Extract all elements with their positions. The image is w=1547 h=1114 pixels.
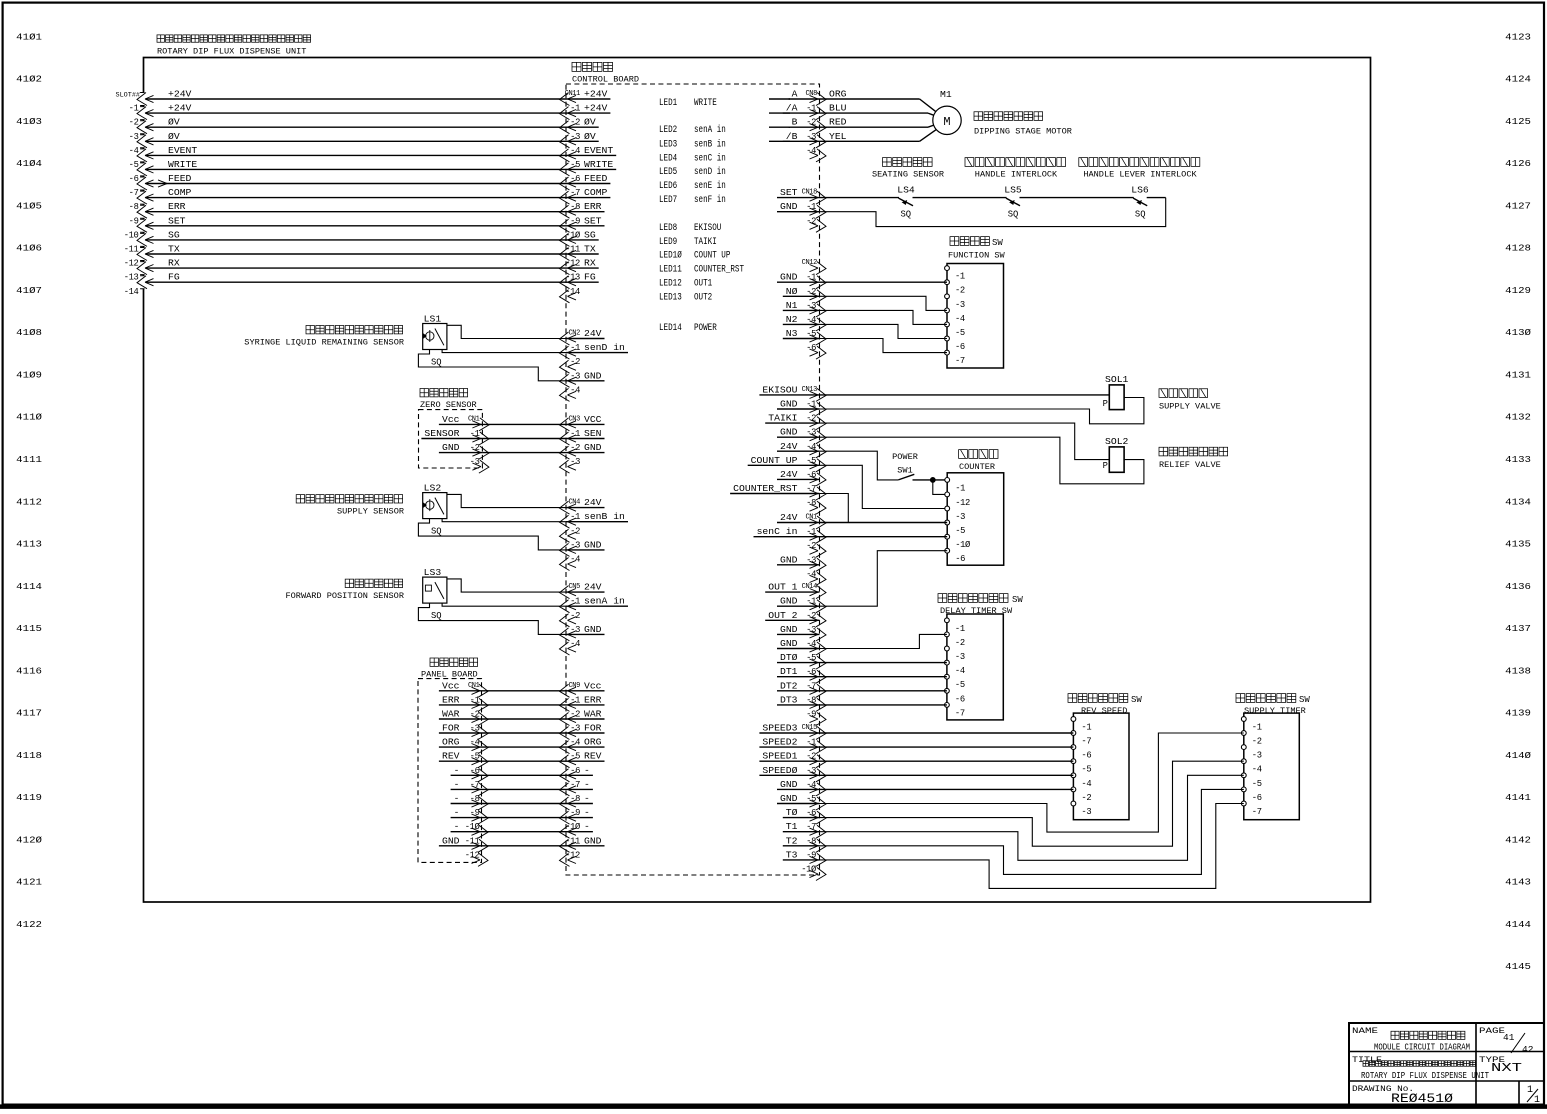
svg-text:ERR: ERR xyxy=(168,201,186,212)
svg-text:-4: -4 xyxy=(570,738,580,748)
svg-text:-5: -5 xyxy=(955,328,965,338)
svg-text:-2: -2 xyxy=(1081,793,1091,803)
svg-text:-1: -1 xyxy=(955,483,965,493)
svg-text:SW: SW xyxy=(1012,595,1023,605)
svg-text:-1: -1 xyxy=(570,429,580,439)
svg-text:-11: -11 xyxy=(124,245,139,255)
svg-text:OUT1: OUT1 xyxy=(694,278,712,289)
svg-text:1: 1 xyxy=(1534,1095,1540,1106)
svg-text:-7: -7 xyxy=(1081,737,1091,747)
svg-text:24V: 24V xyxy=(780,512,798,523)
svg-text:EVENT: EVENT xyxy=(584,145,613,156)
svg-text:-6: -6 xyxy=(955,694,965,704)
svg-text:CN14: CN14 xyxy=(802,583,818,591)
svg-text:ERR: ERR xyxy=(442,694,460,705)
svg-text:SQ: SQ xyxy=(431,526,442,537)
svg-text:413Ø: 413Ø xyxy=(1505,327,1531,338)
svg-text:ØV: ØV xyxy=(168,117,180,128)
svg-text:SUPPLY SENSOR: SUPPLY SENSOR xyxy=(337,507,404,517)
svg-text:414Ø: 414Ø xyxy=(1505,750,1531,761)
svg-text:CN1: CN1 xyxy=(805,514,817,522)
svg-text:DELAY TIMER SW: DELAY TIMER SW xyxy=(940,606,1013,616)
svg-text:Vcc: Vcc xyxy=(584,680,602,691)
svg-text:-3: -3 xyxy=(570,132,580,142)
svg-text:LED11: LED11 xyxy=(659,265,682,276)
svg-text:SET: SET xyxy=(168,215,186,226)
svg-text:CN12: CN12 xyxy=(802,259,818,267)
svg-text:senC in: senC in xyxy=(694,152,726,164)
svg-text:4144: 4144 xyxy=(1505,919,1531,930)
svg-text:GND: GND xyxy=(780,272,798,283)
svg-text:4116: 4116 xyxy=(16,665,42,676)
svg-text:SPEEDØ: SPEEDØ xyxy=(762,765,797,776)
svg-text:SQ: SQ xyxy=(901,209,912,220)
svg-text:SUPPLY VALVE: SUPPLY VALVE xyxy=(1159,402,1221,412)
svg-text:WRITE: WRITE xyxy=(584,159,613,170)
svg-text:1: 1 xyxy=(1527,1085,1533,1096)
svg-text:-: - xyxy=(584,765,590,776)
svg-text:LED14: LED14 xyxy=(659,323,682,334)
svg-text:GND: GND xyxy=(780,554,798,565)
svg-text:-5: -5 xyxy=(1252,779,1262,789)
svg-text:-1Ø: -1Ø xyxy=(565,230,581,240)
svg-text:-11: -11 xyxy=(565,245,580,255)
svg-text:-7: -7 xyxy=(955,356,965,366)
svg-text:COUNT UP: COUNT UP xyxy=(751,455,798,466)
svg-text:SUPPLY TIMER: SUPPLY TIMER xyxy=(1244,706,1306,716)
svg-text:-11: -11 xyxy=(565,836,580,846)
svg-text:DTØ: DTØ xyxy=(780,652,798,663)
svg-text:-: - xyxy=(584,779,590,790)
svg-text:42: 42 xyxy=(1522,1044,1534,1055)
svg-text:-3: -3 xyxy=(1081,807,1091,817)
svg-text:M: M xyxy=(943,115,950,129)
svg-text:GND: GND xyxy=(780,427,798,438)
svg-text:LED9: LED9 xyxy=(659,237,677,248)
svg-text:24V: 24V xyxy=(584,582,602,593)
svg-text:VCC: VCC xyxy=(584,414,602,425)
svg-text:-1: -1 xyxy=(570,343,580,353)
svg-text:SEN: SEN xyxy=(584,428,602,439)
svg-text:CN1: CN1 xyxy=(468,415,480,423)
svg-text:4121: 4121 xyxy=(16,877,42,888)
svg-text:-8: -8 xyxy=(570,202,580,212)
svg-text:FOR: FOR xyxy=(584,723,602,734)
svg-text:TX: TX xyxy=(584,244,596,255)
svg-text:FG: FG xyxy=(584,272,596,283)
svg-text:LS5: LS5 xyxy=(1004,185,1022,196)
svg-text:LED1: LED1 xyxy=(659,98,677,109)
svg-text:4128: 4128 xyxy=(1505,243,1531,254)
svg-text:-7: -7 xyxy=(1252,807,1262,817)
svg-text:SOL1: SOL1 xyxy=(1105,374,1129,385)
svg-text:-5: -5 xyxy=(955,680,965,690)
svg-text:ORG: ORG xyxy=(584,737,602,748)
svg-text:MODULE CIRCUIT DIAGRAM: MODULE CIRCUIT DIAGRAM xyxy=(1374,1043,1470,1053)
svg-text:4145: 4145 xyxy=(1505,961,1531,972)
svg-text:4111: 4111 xyxy=(16,454,42,465)
svg-text:-: - xyxy=(454,779,460,790)
svg-text:-2: -2 xyxy=(129,118,139,128)
svg-text:DT2: DT2 xyxy=(780,680,798,691)
svg-text:-1: -1 xyxy=(129,104,139,114)
svg-text:4115: 4115 xyxy=(16,623,42,634)
svg-text:-3: -3 xyxy=(955,512,965,522)
svg-text:ØV: ØV xyxy=(584,131,596,142)
svg-text:FEED: FEED xyxy=(584,173,608,184)
svg-text:CN15: CN15 xyxy=(802,724,818,732)
svg-text:SW1: SW1 xyxy=(897,466,913,476)
svg-text:P: P xyxy=(1103,461,1108,471)
svg-text:-13: -13 xyxy=(124,273,139,283)
svg-text:-2: -2 xyxy=(570,611,580,621)
svg-text:-5: -5 xyxy=(570,160,580,170)
svg-text:-4: -4 xyxy=(570,146,580,156)
svg-text:REV SPEED: REV SPEED xyxy=(1081,706,1127,716)
svg-text:-: - xyxy=(454,807,460,818)
svg-text:-6: -6 xyxy=(1081,751,1091,761)
svg-text:GND: GND xyxy=(780,779,798,790)
svg-text:SW: SW xyxy=(1131,695,1142,705)
svg-text:GND: GND xyxy=(442,835,460,846)
svg-text:NAME: NAME xyxy=(1352,1026,1378,1036)
svg-text:GND: GND xyxy=(584,835,602,846)
svg-text:-: - xyxy=(454,821,460,832)
svg-text:4142: 4142 xyxy=(1505,834,1531,845)
svg-text:WRITE: WRITE xyxy=(694,98,717,109)
svg-text:-2: -2 xyxy=(570,710,580,720)
svg-text:/A: /A xyxy=(786,103,798,114)
svg-text:TAIKI: TAIKI xyxy=(694,237,717,248)
svg-text:-9: -9 xyxy=(570,808,580,818)
svg-text:-2: -2 xyxy=(955,638,965,648)
svg-text:GND: GND xyxy=(442,442,460,453)
svg-text:4143: 4143 xyxy=(1505,877,1531,888)
svg-text:4137: 4137 xyxy=(1505,623,1531,634)
svg-text:N2: N2 xyxy=(786,314,798,325)
svg-text:-1: -1 xyxy=(955,272,965,282)
svg-text:FOR: FOR xyxy=(442,723,460,734)
svg-text:SEATING SENSOR: SEATING SENSOR xyxy=(872,170,944,180)
svg-text:24V: 24V xyxy=(584,497,602,508)
svg-text:-7: -7 xyxy=(129,188,139,198)
svg-text:senD in: senD in xyxy=(694,166,726,178)
svg-text:GND: GND xyxy=(584,624,602,635)
svg-text:41Ø5: 41Ø5 xyxy=(16,200,42,211)
svg-text:LED2: LED2 xyxy=(659,125,677,136)
svg-text:REV: REV xyxy=(584,751,602,762)
svg-text:-9: -9 xyxy=(570,216,580,226)
svg-text:SQ: SQ xyxy=(1008,209,1019,220)
svg-text:LED13: LED13 xyxy=(659,292,682,303)
svg-text:ZERO SENSOR: ZERO SENSOR xyxy=(420,400,477,410)
svg-text:B: B xyxy=(792,117,798,128)
svg-text:-3: -3 xyxy=(570,625,580,635)
svg-text:FORWARD POSITION SENSOR: FORWARD POSITION SENSOR xyxy=(286,591,405,601)
svg-text:LS1: LS1 xyxy=(424,314,442,325)
svg-text:4122: 4122 xyxy=(16,919,42,930)
svg-text:LED7: LED7 xyxy=(659,195,677,206)
svg-text:LED5: LED5 xyxy=(659,167,677,178)
svg-text:CONTROL BOARD: CONTROL BOARD xyxy=(572,75,639,85)
svg-text:4126: 4126 xyxy=(1505,158,1531,169)
svg-text:HANDLE INTERLOCK: HANDLE INTERLOCK xyxy=(975,170,1058,180)
svg-text:-8: -8 xyxy=(570,794,580,804)
svg-text:-4: -4 xyxy=(806,442,816,452)
svg-text:COUNT UP: COUNT UP xyxy=(694,251,730,262)
svg-text:-5: -5 xyxy=(570,752,580,762)
svg-text:DIPPING STAGE MOTOR: DIPPING STAGE MOTOR xyxy=(974,127,1072,137)
svg-text:-1Ø: -1Ø xyxy=(955,540,971,550)
svg-text:-2: -2 xyxy=(955,286,965,296)
svg-text:4117: 4117 xyxy=(16,708,42,719)
svg-text:CN8: CN8 xyxy=(805,90,817,98)
svg-text:GND: GND xyxy=(584,442,602,453)
svg-text:senA in: senA in xyxy=(584,596,625,607)
svg-text:CN5: CN5 xyxy=(568,583,580,591)
svg-text:4138: 4138 xyxy=(1505,665,1531,676)
svg-text:CN9: CN9 xyxy=(568,682,580,690)
svg-text:-6: -6 xyxy=(570,174,580,184)
svg-text:ROTARY DIP FLUX DISPENSE UNIT: ROTARY DIP FLUX DISPENSE UNIT xyxy=(1361,1071,1489,1081)
svg-text:4119: 4119 xyxy=(16,792,42,803)
svg-text:LED1Ø: LED1Ø xyxy=(659,250,682,262)
svg-text:-2: -2 xyxy=(570,357,580,367)
svg-text:SPEED2: SPEED2 xyxy=(762,737,797,748)
svg-text:+24V: +24V xyxy=(168,103,192,114)
svg-text:FEED: FEED xyxy=(168,173,192,184)
svg-text:M1: M1 xyxy=(940,89,952,100)
svg-text:4118: 4118 xyxy=(16,750,42,761)
svg-text:RX: RX xyxy=(168,258,180,269)
svg-text:SW: SW xyxy=(992,238,1003,248)
svg-text:PANEL BOARD: PANEL BOARD xyxy=(421,670,478,680)
svg-text:YEL: YEL xyxy=(829,131,847,142)
svg-text:-: - xyxy=(454,765,460,776)
svg-text:-12: -12 xyxy=(955,498,970,508)
svg-text:-6: -6 xyxy=(955,342,965,352)
svg-text:LED3: LED3 xyxy=(659,139,677,150)
svg-text:4136: 4136 xyxy=(1505,581,1531,592)
svg-text:GND: GND xyxy=(584,370,602,381)
svg-text:GND: GND xyxy=(780,399,798,410)
svg-text:-: - xyxy=(584,807,590,818)
svg-text:-7: -7 xyxy=(570,188,580,198)
svg-text:-14: -14 xyxy=(565,287,580,297)
svg-text:CN3: CN3 xyxy=(568,415,580,423)
svg-text:SLOT##: SLOT## xyxy=(116,92,140,100)
svg-text:-2: -2 xyxy=(570,118,580,128)
svg-text:Vcc: Vcc xyxy=(442,414,460,425)
svg-text:LED6: LED6 xyxy=(659,181,677,192)
svg-text:-3: -3 xyxy=(129,132,139,142)
svg-text:-12: -12 xyxy=(124,259,139,269)
svg-text:41Ø7: 41Ø7 xyxy=(16,285,42,296)
svg-text:EKISOU: EKISOU xyxy=(762,384,797,395)
svg-text:24V: 24V xyxy=(780,441,798,452)
svg-text:41: 41 xyxy=(1503,1032,1515,1043)
svg-text:-4: -4 xyxy=(955,666,965,676)
svg-text:-8: -8 xyxy=(129,202,139,212)
svg-text:-1: -1 xyxy=(1081,723,1091,733)
svg-text:T3: T3 xyxy=(786,849,798,860)
svg-text:24V: 24V xyxy=(780,469,798,480)
svg-text:TX: TX xyxy=(168,244,180,255)
svg-text:N1: N1 xyxy=(786,300,798,311)
svg-text:SPEED1: SPEED1 xyxy=(762,751,797,762)
svg-text:SET: SET xyxy=(584,215,602,226)
svg-text:ROTARY DIP FLUX DISPENSE UNIT: ROTARY DIP FLUX DISPENSE UNIT xyxy=(157,47,306,57)
svg-text:/B: /B xyxy=(786,131,798,142)
svg-text:DT3: DT3 xyxy=(780,694,798,705)
svg-text:SQ: SQ xyxy=(431,610,442,621)
svg-text:-4: -4 xyxy=(570,385,580,395)
svg-text:TØ: TØ xyxy=(786,807,798,818)
svg-text:NXT: NXT xyxy=(1491,1062,1522,1075)
svg-text:4133: 4133 xyxy=(1505,454,1531,465)
svg-text:LS3: LS3 xyxy=(424,567,442,578)
svg-text:-: - xyxy=(454,793,460,804)
svg-text:-9: -9 xyxy=(129,216,139,226)
svg-text:senD in: senD in xyxy=(584,342,625,353)
svg-text:WAR: WAR xyxy=(584,709,602,720)
svg-text:-6: -6 xyxy=(955,554,965,564)
svg-text:4123: 4123 xyxy=(1505,31,1531,42)
svg-text:DT1: DT1 xyxy=(780,666,798,677)
svg-text:SPEED3: SPEED3 xyxy=(762,723,797,734)
svg-text:A: A xyxy=(792,89,798,100)
svg-text:-4: -4 xyxy=(955,314,965,324)
svg-text:CN2: CN2 xyxy=(568,330,580,338)
svg-text:BLU: BLU xyxy=(829,103,847,114)
svg-text:4134: 4134 xyxy=(1505,496,1531,507)
svg-text:-1: -1 xyxy=(570,597,580,607)
svg-text:41Ø8: 41Ø8 xyxy=(16,327,42,338)
svg-text:RED: RED xyxy=(829,117,847,128)
svg-text:LED12: LED12 xyxy=(659,278,682,289)
svg-text:WAR: WAR xyxy=(442,709,460,720)
svg-text:PAGE: PAGE xyxy=(1479,1026,1505,1036)
svg-text:4124: 4124 xyxy=(1505,74,1531,85)
svg-text:-7: -7 xyxy=(570,780,580,790)
svg-text:T2: T2 xyxy=(786,835,798,846)
svg-text:-3: -3 xyxy=(955,652,965,662)
svg-text:CN18: CN18 xyxy=(802,189,818,197)
svg-text:COUNTER: COUNTER xyxy=(959,462,995,472)
svg-text:4131: 4131 xyxy=(1505,370,1531,381)
svg-text:FUNCTION SW: FUNCTION SW xyxy=(948,251,1006,261)
svg-text:GND: GND xyxy=(780,201,798,212)
svg-text:41Ø3: 41Ø3 xyxy=(16,116,42,127)
svg-text:-1: -1 xyxy=(570,512,580,522)
svg-text:4141: 4141 xyxy=(1505,792,1531,803)
svg-text:senA in: senA in xyxy=(694,124,726,136)
svg-text:GND: GND xyxy=(780,596,798,607)
svg-text:4125: 4125 xyxy=(1505,116,1531,127)
svg-text:ERR: ERR xyxy=(584,201,602,212)
svg-text:-12: -12 xyxy=(565,850,580,860)
svg-text:4114: 4114 xyxy=(16,581,42,592)
svg-text:-6: -6 xyxy=(129,174,139,184)
svg-text:-14: -14 xyxy=(124,287,139,297)
svg-text:411Ø: 411Ø xyxy=(16,412,42,423)
svg-text:-3: -3 xyxy=(955,300,965,310)
svg-text:RX: RX xyxy=(584,258,596,269)
svg-text:ØV: ØV xyxy=(584,117,596,128)
svg-text:-: - xyxy=(584,821,590,832)
svg-text:4113: 4113 xyxy=(16,539,42,550)
svg-text:OUT 1: OUT 1 xyxy=(768,582,797,593)
svg-text:412Ø: 412Ø xyxy=(16,834,42,845)
svg-text:ERR: ERR xyxy=(584,694,602,705)
svg-text:-4: -4 xyxy=(129,146,139,156)
svg-text:REØ451Ø: REØ451Ø xyxy=(1391,1092,1454,1106)
svg-text:SENSOR: SENSOR xyxy=(424,428,459,439)
svg-text:senC in: senC in xyxy=(757,526,798,537)
svg-text:senF in: senF in xyxy=(694,194,726,206)
svg-text:ORG: ORG xyxy=(829,89,847,100)
svg-text:-5: -5 xyxy=(955,526,965,536)
svg-text:GND: GND xyxy=(780,638,798,649)
svg-text:FG: FG xyxy=(168,272,180,283)
svg-text:LS2: LS2 xyxy=(424,483,442,494)
svg-text:SQ: SQ xyxy=(431,357,442,368)
svg-text:ORG: ORG xyxy=(442,737,460,748)
svg-text:-3: -3 xyxy=(570,724,580,734)
svg-text:41Ø4: 41Ø4 xyxy=(16,158,42,169)
svg-text:senE in: senE in xyxy=(694,180,726,192)
svg-text:4132: 4132 xyxy=(1505,412,1531,423)
svg-text:ØV: ØV xyxy=(168,131,180,142)
svg-text:N3: N3 xyxy=(786,328,798,339)
svg-text:-1Ø: -1Ø xyxy=(565,822,581,832)
svg-text:SG: SG xyxy=(168,229,180,240)
svg-text:-10: -10 xyxy=(124,230,139,240)
svg-text:LED8: LED8 xyxy=(659,223,677,234)
svg-text:24V: 24V xyxy=(584,328,602,339)
svg-text:-4: -4 xyxy=(570,555,580,565)
svg-text:41Ø2: 41Ø2 xyxy=(16,74,42,85)
svg-text:NØ: NØ xyxy=(786,286,798,297)
svg-text:HANDLE LEVER INTERLOCK: HANDLE LEVER INTERLOCK xyxy=(1083,170,1197,180)
svg-text:-3: -3 xyxy=(570,457,580,467)
svg-text:EVENT: EVENT xyxy=(168,145,197,156)
svg-text:-13: -13 xyxy=(565,273,580,283)
svg-text:-3: -3 xyxy=(570,371,580,381)
svg-text:-2: -2 xyxy=(570,443,580,453)
svg-text:+24V: +24V xyxy=(584,103,608,114)
svg-text:COUNTER_RST: COUNTER_RST xyxy=(733,483,798,494)
svg-text:-4: -4 xyxy=(1252,765,1262,775)
svg-text:SQ: SQ xyxy=(1135,209,1146,220)
svg-text:RELIEF VALVE: RELIEF VALVE xyxy=(1159,460,1221,470)
svg-text:-5: -5 xyxy=(1081,765,1091,775)
svg-text:LS6: LS6 xyxy=(1131,185,1149,196)
svg-text:-7: -7 xyxy=(955,708,965,718)
svg-text:TAIKI: TAIKI xyxy=(768,413,797,424)
svg-text:-1: -1 xyxy=(955,624,965,634)
svg-text:-3: -3 xyxy=(570,540,580,550)
svg-text:GND: GND xyxy=(584,539,602,550)
svg-text:4129: 4129 xyxy=(1505,285,1531,296)
svg-text:SG: SG xyxy=(584,229,596,240)
svg-text:COMP: COMP xyxy=(584,187,608,198)
svg-text:CN4: CN4 xyxy=(568,499,580,507)
svg-text:+24V: +24V xyxy=(168,89,192,100)
svg-text:-1: -1 xyxy=(570,104,580,114)
svg-text:4135: 4135 xyxy=(1505,539,1531,550)
svg-text:WRITE: WRITE xyxy=(168,159,197,170)
